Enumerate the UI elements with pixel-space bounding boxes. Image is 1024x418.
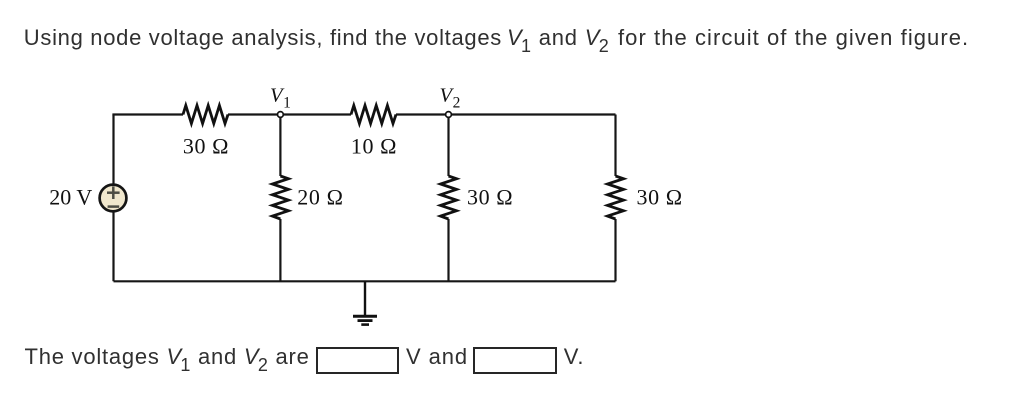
wire right vertical lower stub (614, 219, 616, 281)
wire top right segment (396, 113, 616, 115)
wire between 30ohm and 10ohm through node V1 (228, 113, 351, 115)
svg-text:30 Ω: 30 Ω (183, 133, 229, 158)
resistor 10ohm horizontal zigzag (351, 106, 396, 124)
wire left vertical (source branch) (112, 115, 114, 282)
svg-text:V1: V1 (270, 85, 291, 112)
wire right vertical upper stub (614, 115, 616, 177)
ground symbol (353, 281, 377, 324)
wire V2 branch lower stub (447, 219, 449, 281)
voltage source plus sign (107, 186, 120, 206)
svg-text:10 Ω: 10 Ω (351, 133, 397, 158)
answer box 2 (473, 347, 556, 374)
title line (24, 27, 502, 49)
wire V1 branch upper stub (279, 115, 281, 177)
svg-text:30 Ω: 30 Ω (467, 185, 513, 210)
svg-text:V2: V2 (440, 85, 461, 112)
node V2 (446, 112, 452, 118)
resistor 20ohm vertical zigzag (272, 176, 288, 219)
node V1 (278, 112, 284, 118)
answer sentence (25, 346, 310, 376)
wire V2 branch upper stub (447, 115, 449, 177)
svg-text:20 Ω: 20 Ω (297, 185, 343, 210)
voltage source 20V circle (100, 185, 127, 212)
resistor 30ohm horizontal zigzag (183, 106, 228, 124)
resistor 30ohm middle vertical zigzag (441, 176, 457, 219)
wire V1 branch lower stub (279, 219, 281, 281)
svg-text:30 Ω: 30 Ω (637, 185, 683, 210)
wire bottom rail (114, 280, 616, 282)
resistor 30ohm right vertical zigzag (608, 176, 624, 219)
answer box 1 (316, 347, 399, 374)
wire top left segment (114, 115, 184, 116)
voltage source minus sign (108, 205, 120, 208)
svg-text:20 V: 20 V (49, 185, 92, 210)
